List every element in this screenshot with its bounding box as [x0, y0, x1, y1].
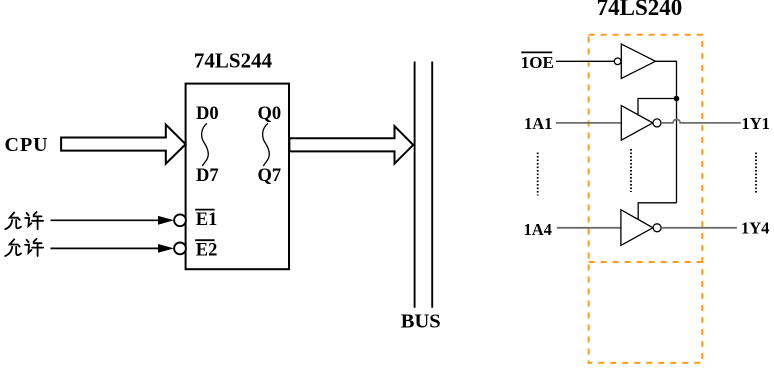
- wire enable 2: [51, 247, 161, 249]
- svg-text:1A1: 1A1: [524, 114, 552, 133]
- svg-text:74LS240: 74LS240: [597, 0, 683, 20]
- svg-text:BUS: BUS: [401, 311, 441, 333]
- wire enable branch to U2: [638, 99, 677, 116]
- svg-text:CPU: CPU: [5, 134, 49, 156]
- svg-text:Q0: Q0: [258, 104, 282, 124]
- hollow arrow 74LS244 to BUS: [289, 126, 413, 164]
- input bubble U1: [614, 58, 621, 65]
- dashed divider line: [589, 261, 703, 263]
- wire 1A4 input: [557, 227, 621, 229]
- inversion circle E1: [174, 214, 186, 226]
- ellipsis dots column right: [755, 153, 757, 195]
- squiggle Q0-Q7: [263, 123, 270, 166]
- wire enable 1: [51, 219, 161, 221]
- wire 1A1 input: [556, 122, 621, 124]
- ellipsis dots column middle: [630, 149, 632, 192]
- label 允许 (enable 1): [5, 212, 43, 229]
- svg-text:1A4: 1A4: [524, 220, 552, 239]
- svg-text:1OE: 1OE: [521, 53, 554, 72]
- junction dot: [674, 96, 680, 102]
- wire U1 output to corner: [656, 61, 677, 98]
- label 允许 (enable 2): [5, 239, 43, 256]
- bus line right: [431, 62, 433, 308]
- svg-text:E1: E1: [196, 210, 218, 230]
- arrowhead enable 2: [158, 244, 174, 253]
- wire enable branch to U3: [638, 203, 676, 220]
- wire 1Y4 output: [661, 227, 737, 229]
- wire 1Y1 output with hop: [661, 119, 741, 123]
- hollow arrow CPU to 74LS244: [61, 125, 186, 164]
- output bubble U3: [653, 224, 661, 232]
- svg-text:74LS244: 74LS244: [194, 49, 273, 73]
- squiggle D0-D7: [202, 123, 209, 166]
- svg-text:E2: E2: [196, 240, 218, 260]
- inversion circle E2: [174, 243, 186, 255]
- wire enable vertical run: [676, 99, 678, 203]
- svg-text:D0: D0: [196, 104, 219, 124]
- svg-text:Q7: Q7: [258, 166, 282, 186]
- output bubble U2: [653, 119, 661, 127]
- arrowhead enable 1: [158, 216, 174, 225]
- svg-text:1Y4: 1Y4: [741, 219, 769, 238]
- inverter triangle U3: [621, 210, 653, 246]
- wire 1OE input: [556, 60, 614, 62]
- bus line left: [414, 62, 416, 308]
- svg-text:D7: D7: [196, 166, 219, 186]
- inverter triangle U2: [621, 106, 653, 141]
- buffer triangle U1 (enable): [621, 44, 655, 78]
- svg-text:1Y1: 1Y1: [742, 114, 770, 133]
- dashed chip outline 74LS240: [589, 35, 703, 363]
- ellipsis dots column left: [537, 153, 539, 196]
- IC box 74LS244: [186, 84, 289, 270]
